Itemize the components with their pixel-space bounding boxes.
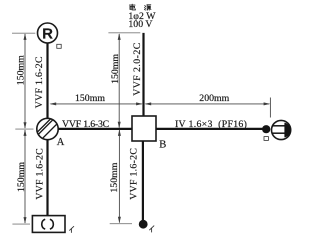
tick at top of power line — [108, 32, 140, 34]
svg-text:100 V: 100 V — [128, 19, 152, 30]
svg-text:IV 1.6×3 (PF16): IV 1.6×3 (PF16) — [175, 119, 247, 130]
svg-text:R: R — [42, 25, 53, 42]
lamp receptacle R (ロ) — [38, 23, 58, 43]
arrowhead right at outlet extension — [264, 102, 271, 105]
power feed wire (VVF 2.0-2C) — [142, 33, 144, 116]
arrowhead up at A-B wire (lower segment) — [118, 129, 121, 136]
kanji 電 (power source label) — [129, 4, 135, 10]
svg-text:VVF 1.6-2C: VVF 1.6-2C — [34, 148, 45, 200]
arrowhead up at R — [24, 33, 27, 40]
svg-text:VVF 2.0-2C: VVF 2.0-2C — [132, 42, 143, 96]
svg-text:150mm: 150mm — [109, 162, 120, 192]
arrowhead down at A — [24, 122, 27, 129]
label イ (near ceiling rose) — [69, 226, 74, 233]
parentheses inside — [42, 219, 45, 229]
dim line 200mm (B to outlet) — [146, 103, 270, 105]
svg-text:VVF 1.6-2C: VVF 1.6-2C — [34, 56, 45, 108]
dim line 150mm (source to box B) — [118, 34, 120, 128]
arrowhead left at R-A wire — [50, 102, 57, 105]
kanji 源 — [144, 5, 151, 10]
svg-text:VVF 1.6-2C: VVF 1.6-2C — [129, 148, 140, 200]
outlet blackened wall-side crescent — [284, 123, 290, 138]
tick at bottom switch — [110, 223, 132, 225]
wire R to A (VVF 1.6-2C) — [46, 43, 48, 118]
dim line 150mm (R to A) — [24, 34, 26, 128]
outlet blade bars — [272, 125, 285, 127]
wall outlet (circle, blackened wall side) — [272, 120, 291, 139]
dim line 150mm (A to ceiling rose) — [24, 130, 26, 223]
wire B to switch/outlet (IV in PF16) — [156, 128, 263, 130]
arrowhead right at power line — [136, 102, 143, 105]
arrowhead left at power line (200mm) — [145, 102, 152, 105]
arrowhead up at source tick — [118, 33, 121, 40]
outlet box B — [132, 116, 156, 141]
tick at ceiling rose — [12, 223, 30, 225]
svg-text:VVF 1.6-3C: VVF 1.6-3C — [62, 119, 109, 130]
arrowhead down at ceiling rose — [24, 217, 27, 224]
tick at R level — [12, 32, 35, 34]
svg-text:A: A — [57, 137, 65, 148]
arrowhead down at bottom switch — [118, 217, 121, 224]
arrowhead down at A-B wire — [118, 122, 121, 129]
switch ロ (filled dot, right) — [262, 125, 270, 133]
wire A to B (VVF 1.6-3C) — [58, 128, 132, 130]
extension line at outlet — [269, 98, 271, 118]
label ロ (near R) — [57, 44, 61, 48]
dim line 150mm (B to switch) — [118, 130, 120, 223]
label イ (near bottom switch) — [149, 226, 154, 233]
switch イ (filled dot, bottom) — [139, 220, 148, 229]
wire A to ceiling rose (VVF 1.6-2C) — [46, 140, 48, 216]
wire B down to switch イ (VVF 1.6-2C) — [142, 141, 144, 221]
svg-text:150mm: 150mm — [16, 162, 27, 192]
svg-text:150mm: 150mm — [75, 93, 105, 104]
tick at A level — [15, 128, 33, 130]
ceiling rose (angular) イ — [32, 216, 65, 233]
label ロ (near right switch) — [264, 137, 268, 141]
svg-text:B: B — [159, 140, 166, 151]
svg-text:200mm: 200mm — [199, 93, 229, 104]
dim line 150mm (A to B) — [51, 103, 142, 105]
svg-text:150mm: 150mm — [15, 55, 26, 85]
joint box A (hatched circle) — [36, 117, 58, 139]
svg-text:150mm: 150mm — [110, 54, 121, 84]
arrowhead up at A (lower segment) — [24, 129, 27, 136]
